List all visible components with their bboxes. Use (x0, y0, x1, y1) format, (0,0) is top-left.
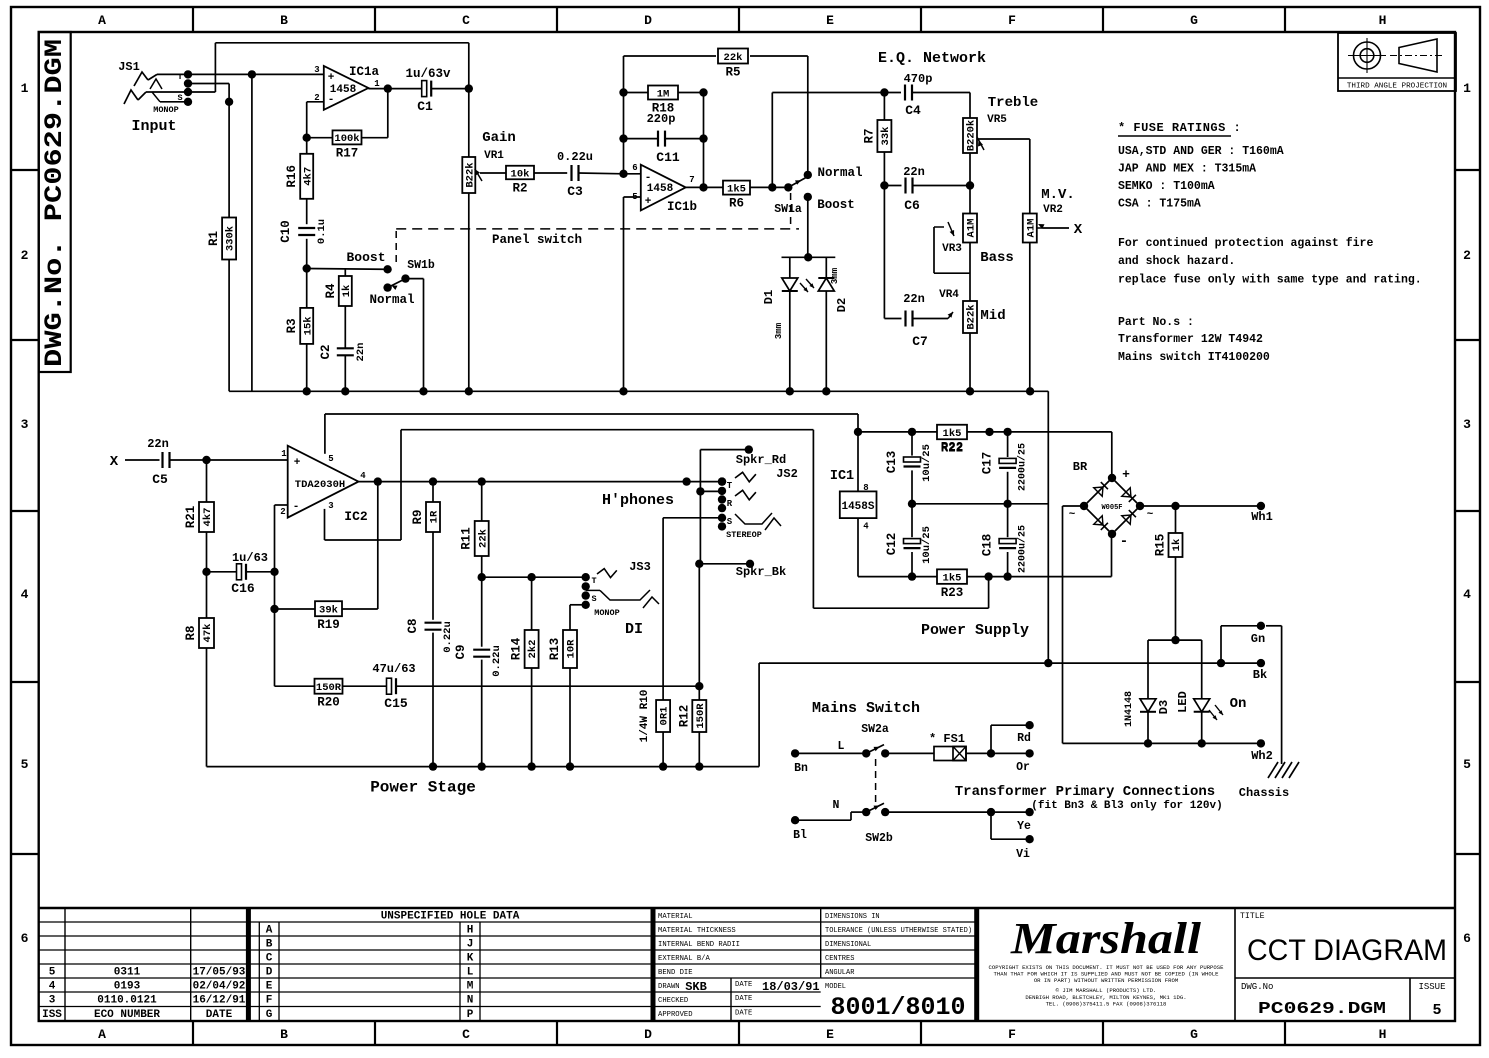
svg-text:B220k: B220k (966, 120, 978, 152)
svg-text:CSA : T175mA: CSA : T175mA (1118, 198, 1201, 211)
svg-text:220p: 220p (647, 112, 676, 126)
svg-text:SW2a: SW2a (861, 723, 889, 736)
svg-text:SW1a: SW1a (774, 203, 802, 216)
svg-text:15k: 15k (302, 316, 314, 335)
svg-text:MATERIAL: MATERIAL (658, 913, 693, 921)
svg-text:JS1: JS1 (118, 60, 140, 74)
svg-text:SW1b: SW1b (407, 259, 435, 272)
svg-text:D: D (644, 1027, 652, 1042)
svg-text:R5: R5 (725, 66, 740, 80)
svg-text:D: D (644, 13, 652, 28)
svg-text:3: 3 (328, 501, 333, 511)
svg-text:Part No.s :: Part No.s : (1118, 316, 1194, 329)
svg-text:Gn: Gn (1251, 632, 1265, 646)
svg-text:Mains switch IT4100200: Mains switch IT4100200 (1118, 351, 1270, 364)
svg-text:On: On (1230, 696, 1247, 712)
svg-text:1: 1 (281, 449, 287, 459)
svg-text:N: N (467, 995, 474, 1007)
svg-text:G: G (1190, 1027, 1198, 1042)
svg-text:1u/63v: 1u/63v (405, 67, 451, 81)
svg-text:47k: 47k (202, 624, 214, 643)
svg-text:2200u/25: 2200u/25 (1017, 525, 1029, 573)
svg-text:Wh1: Wh1 (1251, 510, 1273, 524)
svg-text:22n: 22n (355, 343, 367, 362)
svg-text:TITLE: TITLE (1240, 912, 1265, 921)
svg-text:C2: C2 (319, 344, 333, 359)
svg-text:H'phones: H'phones (602, 492, 674, 509)
svg-text:R9: R9 (411, 509, 425, 524)
svg-text:1458: 1458 (330, 84, 357, 96)
svg-text:R: R (727, 499, 733, 509)
svg-text:4: 4 (863, 522, 869, 532)
svg-text:4: 4 (49, 981, 56, 993)
svg-text:2: 2 (21, 248, 29, 263)
svg-text:H: H (467, 925, 474, 937)
svg-text:PC0629.DGM: PC0629.DGM (1258, 1000, 1386, 1019)
svg-text:A: A (266, 925, 273, 937)
svg-text:JAP AND MEX : T315mA: JAP AND MEX : T315mA (1118, 163, 1256, 176)
svg-text:THIRD ANGLE PROJECTION: THIRD ANGLE PROJECTION (1347, 83, 1447, 91)
svg-text:1: 1 (1463, 81, 1471, 96)
svg-text:1k5: 1k5 (727, 183, 746, 195)
svg-text:R12: R12 (677, 705, 691, 728)
svg-text:ECO NUMBER: ECO NUMBER (94, 1009, 160, 1021)
svg-text:0.22u: 0.22u (557, 150, 593, 164)
svg-text:1N4148: 1N4148 (1124, 691, 1135, 727)
svg-text:OR IN PART) WITHOUT WRITTEN PE: OR IN PART) WITHOUT WRITTEN PERMISSION F… (1034, 977, 1178, 984)
svg-text:100k: 100k (334, 133, 359, 145)
svg-text:+: + (328, 72, 335, 84)
svg-text:VR5: VR5 (987, 114, 1007, 126)
svg-text:DIMENSIONAL: DIMENSIONAL (825, 941, 871, 949)
svg-text:Normal: Normal (817, 166, 862, 180)
svg-text:L: L (838, 740, 845, 753)
svg-text:S: S (177, 93, 182, 103)
svg-text:0R1: 0R1 (659, 707, 671, 726)
svg-text:X: X (110, 454, 119, 470)
svg-text:Ye: Ye (1017, 820, 1031, 833)
svg-text:H: H (1379, 1027, 1387, 1042)
svg-text:TOLERANCE (UNLESS UTHERWISE ST: TOLERANCE (UNLESS UTHERWISE STATED) (825, 927, 972, 935)
svg-text:6: 6 (21, 931, 29, 946)
svg-text:ISS: ISS (42, 1009, 62, 1021)
svg-text:1k: 1k (341, 285, 353, 298)
svg-text:1458: 1458 (647, 183, 674, 195)
svg-text:A1M: A1M (966, 219, 978, 238)
svg-text:Spkr_Bk: Spkr_Bk (736, 565, 786, 579)
svg-text:3mm: 3mm (774, 322, 784, 339)
svg-text:1/4W R10: 1/4W R10 (639, 690, 651, 743)
svg-text:* FS1: * FS1 (929, 732, 965, 746)
svg-text:Bl: Bl (793, 829, 807, 842)
svg-text:1458S: 1458S (841, 501, 874, 513)
svg-text:VR4: VR4 (939, 289, 959, 301)
svg-text:02/04/92: 02/04/92 (193, 981, 246, 993)
svg-text:© JIM MARSHALL (PRODUCTS) LT: © JIM MARSHALL (PRODUCTS) LTD. (1056, 987, 1157, 994)
svg-text:+: + (1122, 467, 1130, 482)
svg-text:Wh2: Wh2 (1251, 749, 1273, 763)
svg-text:3: 3 (49, 995, 56, 1007)
svg-text:MONOP: MONOP (153, 105, 179, 115)
svg-text:17/05/93: 17/05/93 (193, 967, 246, 979)
svg-text:R7: R7 (862, 128, 876, 143)
svg-text:E: E (266, 981, 273, 993)
svg-text:DATE: DATE (206, 1009, 233, 1021)
svg-text:5: 5 (328, 454, 333, 464)
svg-text:3: 3 (21, 417, 29, 432)
svg-text:5: 5 (21, 757, 29, 772)
svg-text:470p: 470p (904, 72, 933, 86)
svg-text:4: 4 (1463, 587, 1471, 602)
svg-text:Mid: Mid (980, 308, 1005, 324)
svg-text:C16: C16 (231, 581, 255, 596)
svg-text:SW2b: SW2b (865, 832, 893, 845)
svg-text:3mm: 3mm (830, 267, 840, 284)
svg-text:B: B (280, 1027, 288, 1042)
svg-text:P: P (467, 1009, 474, 1021)
svg-text:Boost: Boost (817, 198, 855, 212)
svg-text:B22k: B22k (464, 162, 476, 187)
svg-text:1: 1 (374, 79, 380, 89)
svg-text:M.V.: M.V. (1041, 187, 1075, 203)
svg-text:R20: R20 (317, 696, 340, 710)
svg-text:22n: 22n (147, 437, 169, 451)
svg-text:C4: C4 (905, 103, 921, 118)
svg-text:R3: R3 (285, 318, 299, 333)
svg-text:Rd: Rd (1017, 732, 1031, 745)
svg-text:BEND DIE: BEND DIE (658, 969, 693, 977)
svg-text:R1: R1 (207, 231, 221, 246)
svg-text:IC1a: IC1a (349, 65, 380, 79)
svg-text:A1M: A1M (1025, 219, 1037, 238)
svg-text:C12: C12 (885, 533, 899, 556)
svg-text:0.22u: 0.22u (442, 621, 454, 653)
svg-text:Spkr_Rd: Spkr_Rd (736, 453, 786, 467)
svg-text:G: G (266, 1009, 273, 1021)
svg-text:R22: R22 (941, 441, 964, 455)
svg-text:1u/63: 1u/63 (232, 551, 268, 565)
svg-text:Marshall: Marshall (1010, 914, 1202, 963)
svg-text:UNSPECIFIED HOLE DATA: UNSPECIFIED HOLE DATA (381, 911, 520, 923)
svg-text:47u/63: 47u/63 (372, 662, 415, 676)
svg-text:22k: 22k (724, 52, 743, 64)
svg-text:SEMKO : T100mA: SEMKO : T100mA (1118, 180, 1215, 193)
svg-text:~: ~ (1069, 509, 1076, 521)
svg-text:10R: 10R (566, 639, 578, 659)
svg-text:-: - (293, 501, 300, 513)
svg-text:C7: C7 (912, 334, 928, 349)
svg-text:Treble: Treble (988, 95, 1038, 111)
svg-text:H: H (1379, 13, 1387, 28)
svg-text:4: 4 (360, 471, 366, 481)
svg-text:EXTERNAL B/A: EXTERNAL B/A (658, 955, 710, 963)
svg-text:C3: C3 (567, 184, 583, 199)
svg-text:IC1b: IC1b (667, 200, 697, 214)
svg-text:8: 8 (863, 483, 868, 493)
svg-text:DIMENSIONS IN: DIMENSIONS IN (825, 913, 880, 921)
svg-text:5: 5 (1432, 1002, 1441, 1019)
svg-text:10u/25: 10u/25 (921, 444, 933, 482)
svg-text:S: S (727, 517, 733, 527)
svg-text:TEL. (0908)375411.5 FAX (0908): TEL. (0908)375411.5 FAX (0908)376118 (1046, 1001, 1167, 1008)
svg-text:39k: 39k (319, 605, 338, 617)
svg-text:T: T (591, 576, 596, 586)
svg-text:2k2: 2k2 (527, 640, 539, 659)
svg-text:Gain: Gain (482, 130, 516, 146)
svg-text:~: ~ (1147, 509, 1154, 521)
svg-text:DATE: DATE (735, 995, 752, 1003)
svg-text:D1: D1 (762, 290, 776, 304)
svg-text:A: A (98, 1027, 106, 1042)
svg-text:3: 3 (314, 65, 319, 75)
svg-text:APPROVED: APPROVED (658, 1011, 693, 1019)
svg-text:8001/8010: 8001/8010 (830, 993, 965, 1022)
svg-text:C8: C8 (406, 618, 420, 633)
svg-text:* FUSE RATINGS :: * FUSE RATINGS : (1118, 121, 1241, 135)
svg-text:R23: R23 (941, 586, 964, 600)
svg-text:A: A (98, 13, 106, 28)
svg-text:replace fuse only with same ty: replace fuse only with same type and rat… (1118, 274, 1422, 287)
svg-text:0.1u: 0.1u (316, 219, 328, 244)
svg-text:JS3: JS3 (629, 560, 651, 574)
svg-text:L: L (467, 967, 474, 979)
svg-text:R11: R11 (460, 527, 474, 550)
svg-text:22n: 22n (903, 165, 925, 179)
svg-text:IC2: IC2 (344, 509, 368, 524)
svg-text:C5: C5 (152, 472, 168, 487)
svg-text:MODEL: MODEL (825, 983, 846, 991)
svg-text:-: - (1120, 534, 1128, 550)
svg-text:TDA2030H: TDA2030H (295, 479, 345, 491)
svg-text:INTERNAL BEND RADII: INTERNAL BEND RADII (658, 941, 740, 949)
svg-text:C: C (266, 953, 273, 965)
svg-text:Transformer Primary Connection: Transformer Primary Connections (955, 784, 1215, 800)
svg-text:R13: R13 (548, 638, 562, 661)
svg-text:STEREOP: STEREOP (726, 530, 762, 540)
svg-text:10u/25: 10u/25 (921, 526, 933, 564)
svg-text:Power Stage: Power Stage (370, 779, 476, 797)
svg-text:C15: C15 (384, 696, 408, 711)
svg-text:Bn: Bn (794, 762, 808, 775)
svg-text:CHECKED: CHECKED (658, 997, 688, 1005)
svg-text:W005F: W005F (1101, 504, 1122, 512)
svg-text:VR1: VR1 (484, 150, 504, 162)
svg-text:M: M (467, 981, 474, 993)
svg-text:DWG.No. PC0629.DGM: DWG.No. PC0629.DGM (40, 39, 69, 367)
svg-text:F: F (266, 995, 273, 1007)
svg-text:C6: C6 (904, 198, 920, 213)
svg-text:C: C (462, 1027, 470, 1042)
svg-text:Bass: Bass (980, 250, 1014, 266)
svg-text:1k5: 1k5 (943, 572, 962, 584)
svg-text:CENTRES: CENTRES (825, 955, 854, 963)
svg-text:7: 7 (689, 175, 694, 185)
svg-text:Power Supply: Power Supply (921, 622, 1029, 639)
svg-text:T: T (727, 481, 733, 491)
svg-text:1M: 1M (657, 88, 670, 100)
svg-text:JS2: JS2 (776, 467, 798, 481)
svg-text:C1: C1 (417, 99, 433, 114)
svg-text:Mains Switch: Mains Switch (812, 700, 920, 717)
svg-text:C9: C9 (454, 644, 468, 659)
svg-text:G: G (1190, 13, 1198, 28)
svg-text:5: 5 (49, 967, 56, 979)
svg-text:1R: 1R (429, 510, 441, 523)
svg-text:C17: C17 (981, 452, 995, 475)
svg-text:D: D (266, 967, 273, 979)
svg-text:IC1: IC1 (830, 469, 854, 484)
svg-text:E: E (826, 1027, 834, 1042)
svg-text:B: B (266, 939, 273, 951)
svg-text:330k: 330k (225, 226, 237, 251)
svg-text:C18: C18 (981, 534, 995, 557)
svg-text:J: J (467, 939, 474, 951)
svg-text:DWG.No: DWG.No (1241, 982, 1273, 992)
svg-text:BR: BR (1073, 460, 1088, 474)
svg-text:R14: R14 (510, 637, 524, 660)
svg-text:Input: Input (131, 118, 176, 135)
svg-text:Transformer 12W T4942: Transformer 12W T4942 (1118, 333, 1263, 346)
svg-text:Chassis: Chassis (1239, 786, 1289, 800)
svg-text:(fit Bn3 & Bl3 only for 120v): (fit Bn3 & Bl3 only for 120v) (1031, 800, 1222, 812)
svg-text:Bk: Bk (1253, 668, 1267, 682)
svg-text:S: S (591, 594, 596, 604)
svg-text:1: 1 (21, 81, 29, 96)
svg-text:16/12/91: 16/12/91 (193, 995, 246, 1007)
svg-text:4k7: 4k7 (302, 167, 314, 186)
svg-text:R4: R4 (324, 283, 338, 299)
svg-text:R15: R15 (1154, 534, 1168, 557)
svg-text:CCT DIAGRAM: CCT DIAGRAM (1247, 934, 1447, 967)
svg-text:and shock hazard.: and shock hazard. (1118, 255, 1235, 268)
svg-text:2: 2 (280, 507, 285, 517)
svg-text:R6: R6 (729, 197, 744, 211)
svg-text:0110.0121: 0110.0121 (97, 995, 157, 1007)
svg-text:ANGULAR: ANGULAR (825, 969, 855, 977)
svg-text:Panel switch: Panel switch (492, 233, 582, 247)
svg-text:K: K (467, 953, 474, 965)
svg-text:1k: 1k (1171, 539, 1183, 552)
svg-text:D3: D3 (1157, 700, 1171, 714)
svg-text:2200u/25: 2200u/25 (1017, 443, 1029, 491)
svg-text:3: 3 (1463, 417, 1471, 432)
svg-text:R21: R21 (184, 506, 198, 529)
svg-text:150R: 150R (695, 703, 707, 729)
svg-text:D2: D2 (835, 298, 849, 312)
svg-text:Normal: Normal (369, 293, 414, 307)
svg-text:T: T (177, 72, 182, 82)
svg-text:Boost: Boost (346, 250, 385, 265)
svg-text:F: F (1008, 1027, 1016, 1042)
svg-text:22k: 22k (477, 529, 489, 548)
svg-text:6: 6 (1463, 931, 1471, 946)
svg-text:6: 6 (632, 163, 637, 173)
svg-text:R16: R16 (285, 165, 299, 188)
svg-text:1k5: 1k5 (943, 428, 962, 440)
svg-text:C13: C13 (885, 451, 899, 474)
svg-text:SKB: SKB (685, 980, 707, 994)
svg-text:DRAWN: DRAWN (658, 983, 680, 991)
svg-text:10k: 10k (511, 168, 530, 180)
svg-text:33k: 33k (880, 127, 892, 146)
svg-text:R8: R8 (184, 625, 198, 640)
svg-text:MATERIAL THICKNESS: MATERIAL THICKNESS (658, 927, 736, 935)
svg-text:Or: Or (1016, 761, 1030, 774)
svg-text:2: 2 (1463, 248, 1471, 263)
svg-text:LED: LED (1176, 691, 1190, 713)
svg-text:4: 4 (21, 587, 29, 602)
svg-text:22n: 22n (903, 292, 925, 306)
svg-text:DATE: DATE (735, 981, 752, 989)
svg-text:X: X (1074, 222, 1083, 238)
svg-text:5: 5 (1463, 757, 1471, 772)
svg-text:B22k: B22k (966, 304, 978, 329)
svg-text:VR3: VR3 (942, 243, 962, 255)
svg-text:18/03/91: 18/03/91 (762, 980, 820, 994)
svg-text:R19: R19 (317, 618, 340, 632)
svg-text:0193: 0193 (114, 981, 141, 993)
svg-text:4k7: 4k7 (202, 508, 214, 527)
svg-text:F: F (1008, 13, 1016, 28)
svg-text:DATE: DATE (735, 1010, 752, 1018)
svg-text:VR2: VR2 (1043, 204, 1063, 216)
svg-text:ISSUE: ISSUE (1418, 982, 1445, 992)
svg-text:0.22u: 0.22u (491, 645, 503, 677)
svg-text:C11: C11 (656, 150, 680, 165)
svg-text:C: C (462, 13, 470, 28)
svg-text:MONOP: MONOP (594, 608, 620, 618)
svg-text:B: B (280, 13, 288, 28)
svg-text:C10: C10 (279, 220, 293, 243)
svg-text:R2: R2 (512, 181, 527, 195)
svg-text:0311: 0311 (114, 967, 141, 979)
svg-text:E.Q. Network: E.Q. Network (878, 50, 986, 67)
svg-text:N: N (833, 799, 840, 812)
svg-text:Vi: Vi (1016, 848, 1030, 861)
svg-text:+: + (294, 457, 301, 469)
svg-text:150R: 150R (316, 682, 342, 694)
svg-text:USA,STD AND GER : T160mA: USA,STD AND GER : T160mA (1118, 145, 1284, 158)
svg-text:DI: DI (625, 621, 643, 638)
svg-text:For continued protection again: For continued protection against fire (1118, 237, 1373, 250)
svg-text:E: E (826, 13, 834, 28)
svg-text:+: + (645, 196, 652, 208)
svg-text:R17: R17 (336, 146, 359, 160)
